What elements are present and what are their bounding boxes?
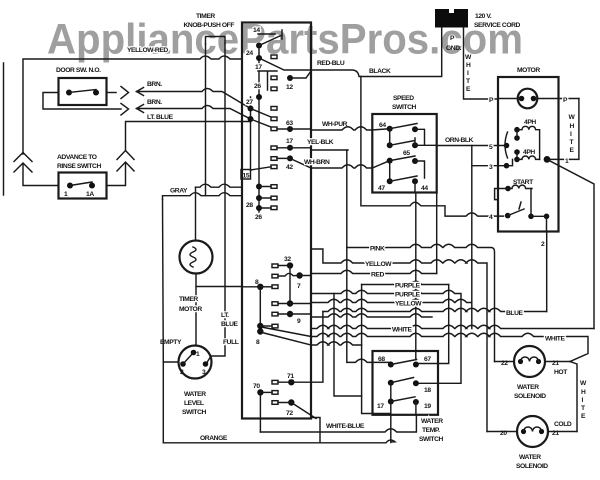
svg-text:12: 12 [286,84,293,91]
cold solenoid circle [517,416,548,447]
wire rinse switch right lead [107,163,126,186]
svg-text:YELLOW: YELLOW [395,301,422,308]
svg-text:GRAY: GRAY [170,188,188,195]
wire 19 riser stub [415,402,417,415]
wire YELLOW [311,249,487,432]
svg-text:WATER: WATER [184,391,206,398]
svg-text:120 V.: 120 V. [475,13,492,20]
svg-text:H: H [581,389,586,396]
wire WH-PUR [311,127,390,130]
timer box [242,23,311,419]
svg-text:27: 27 [246,99,253,106]
svg-text:71: 71 [287,373,294,380]
wire WHITE-BLUE [260,415,416,432]
wire WHITE solenoid feed [311,333,588,361]
svg-text:PINK: PINK [370,246,385,253]
timer motor stem top [195,187,197,240]
timer contact 8 lower rect [272,324,278,328]
wire RED-BLU / BLACK to plug [311,28,442,77]
wire white link between solenoids [570,362,577,432]
wire LT. BLUE horizontal [126,122,251,151]
speed switch box [372,114,436,193]
wire purple1 drop right from 67 [416,285,449,365]
service cord plug [435,9,468,28]
wire solenoid 21 cold lead [548,431,577,433]
svg-text:GND.: GND. [446,45,462,52]
riser purple2 hook [334,294,362,397]
svg-text:14: 14 [253,27,260,34]
timer motor stem bottom [195,274,197,346]
wire door switch loop [43,93,121,110]
svg-text:44: 44 [421,185,428,192]
svg-text:24: 24 [246,50,253,57]
svg-text:LT. BLUE: LT. BLUE [147,114,174,121]
motor box [498,77,559,232]
wire knob drop right to water level FULL [206,44,225,364]
motor start switch [505,213,511,219]
wire motor 1 diagonal white down [547,159,594,328]
wire BRN upper to timer contact 27 [137,89,251,109]
svg-text:TIMER: TIMER [179,296,198,303]
svg-text:WH-PUR: WH-PUR [322,121,348,128]
svg-text:28: 28 [246,202,253,209]
svg-text:SOLENOID: SOLENOID [514,393,546,400]
svg-text:MOTOR: MOTOR [517,67,540,74]
svg-text:ORANGE: ORANGE [200,435,228,442]
advance to rinse switch box [59,173,107,199]
wire 17 drop [390,402,392,443]
svg-text:18: 18 [424,387,431,394]
connector chevrons right of rinse switch [117,151,134,160]
svg-text:72: 72 [286,410,293,417]
wire solenoid 20 lead [487,431,517,433]
wire solenoid 22 lead [495,361,515,363]
svg-text:BRN.: BRN. [147,99,162,106]
connector chevron pair upper [121,87,129,99]
svg-text:17: 17 [255,64,262,71]
speed switch blades and links [390,124,425,193]
svg-text:YEL-BLK: YEL-BLK [307,139,334,146]
svg-text:SWITCH: SWITCH [419,436,444,443]
svg-text:YELLOW-RED: YELLOW-RED [127,47,168,54]
timer terminal rect 17 [271,55,277,59]
wire left column to rinse switch [23,164,59,186]
timer bus upper [251,46,260,213]
wire motor 2 drop [546,216,548,311]
svg-text:64: 64 [379,122,386,129]
svg-text:4PH: 4PH [524,119,536,126]
wire plug neutral to motor P [464,28,499,100]
connector chevrons left column [14,153,32,162]
svg-text:67: 67 [424,356,431,363]
wire node8 diagonal upper [260,326,311,337]
svg-text:ADVANCE TO: ADVANCE TO [57,154,97,161]
motor start outer loop [495,189,508,200]
wire knob drop left [205,44,207,196]
svg-text:PURPLE: PURPLE [395,283,421,290]
wire PURPLE 1 [362,281,449,284]
motor centrifugal switch [504,143,510,149]
svg-text:42: 42 [286,164,293,171]
timer knob bar [206,37,226,45]
door switch DS box [59,78,107,105]
svg-text:63: 63 [286,120,293,127]
wire red drop from speed switch corner [436,193,438,274]
svg-text:HOT: HOT [554,369,568,376]
wire purple1 riser down [362,285,391,414]
wire black drop vertical right [471,146,473,329]
water temp switch box [373,351,439,415]
wire PURPLE 2 [311,290,461,383]
wire BRN lower to timer [137,106,251,120]
svg-text:WHITE: WHITE [392,327,412,334]
svg-text:4PH: 4PH [523,149,535,156]
svg-text:TIMER: TIMER [196,13,215,20]
wire orange riser left [162,199,165,442]
wire BLUE [323,308,547,311]
timer contact mid rect [272,285,278,289]
row X wire [311,314,432,317]
wire ORN-BLK motor 5 [425,144,507,146]
timer bus dots [256,43,262,49]
wire solenoid 21 lead [545,361,570,363]
svg-text:DOOR SW. N.O.: DOOR SW. N.O. [56,67,101,74]
wire RED [311,270,437,273]
water temp blades [391,351,417,402]
wire water level 2 to orange riser [163,361,178,363]
timer contact 15 boxed [241,170,251,180]
svg-text:H: H [466,62,471,69]
svg-text:BRN.: BRN. [147,81,162,88]
svg-text:PURPLE: PURPLE [395,292,421,299]
svg-text:WATER: WATER [519,454,541,461]
timer contact 32 lower [272,302,278,306]
wire protector leads [498,98,579,100]
rinse switch blade [70,182,92,186]
svg-text:15: 15 [243,173,250,180]
timer contact 72 [272,401,278,405]
svg-text:RED: RED [371,272,384,279]
wire 71 riser [311,312,323,383]
svg-text:17: 17 [377,403,384,410]
wire motor 3 lead [472,165,507,167]
wire yel-blk drop to pink [347,150,391,365]
svg-text:ORN-BLK: ORN-BLK [445,137,474,144]
svg-text:COLD: COLD [554,421,572,428]
timer contact 17b [271,146,277,150]
svg-text:TEMP.: TEMP. [422,427,440,434]
svg-text:LT.: LT. [221,312,229,319]
svg-text:SWITCH: SWITCH [392,104,417,111]
svg-text:17: 17 [286,138,293,145]
wire white short third [311,342,362,345]
timer contact 7 [272,274,278,278]
wire black drop to speed switch feed [361,77,504,217]
svg-text:32: 32 [284,256,291,263]
svg-text:LEVEL: LEVEL [184,400,204,407]
wire PINK [347,244,495,361]
svg-text:H: H [570,123,575,130]
svg-text:WHITE-BLUE: WHITE-BLUE [326,423,365,430]
timer motor coil squiggle [190,247,196,267]
svg-text:SOLENOID: SOLENOID [516,463,548,470]
wire WHITE main [311,325,594,328]
wire speed switch 44 drop junction [415,193,417,352]
wire GRAY lower [163,193,243,200]
svg-text:WH-BRN: WH-BRN [304,159,330,166]
svg-text:WATER: WATER [517,384,539,391]
svg-text:BLUE: BLUE [506,310,524,317]
door switch blade [69,90,96,93]
timer contact 42 [271,157,277,161]
hot solenoid circle [514,346,545,377]
motor protector circle [518,89,538,109]
water level contact dots 1 2 3 [191,350,197,356]
wire GRAY upper [196,184,243,187]
svg-text:WHITE: WHITE [545,336,565,343]
timer T-link symbol [258,71,277,90]
svg-text:70: 70 [253,383,260,390]
svg-text:26: 26 [255,214,262,221]
svg-text:BLUE: BLUE [221,321,239,328]
svg-text:SWITCH: SWITCH [182,409,207,416]
svg-text:SERVICE CORD: SERVICE CORD [474,22,521,29]
svg-text:KNOB-PUSH OFF: KNOB-PUSH OFF [184,22,235,29]
speed switch contacts [387,126,393,132]
svg-text:RED-BLU: RED-BLU [317,60,345,67]
svg-text:WATER: WATER [421,418,443,425]
timer contact 63 [271,127,277,131]
page edge artifact [3,63,5,195]
svg-text:YELLOW: YELLOW [365,261,392,268]
door switch contact dots [66,90,72,96]
wire node 8 feed to timer [196,286,242,288]
svg-text:MOTOR: MOTOR [179,306,202,313]
svg-text:68: 68 [378,356,385,363]
svg-text:47: 47 [378,185,385,192]
svg-text:65: 65 [403,150,410,157]
water level switch WLS circle [179,346,212,379]
svg-text:BLACK: BLACK [369,68,391,75]
wire door switch output [107,92,117,94]
svg-text:RINSE SWITCH: RINSE SWITCH [57,163,101,170]
timer contact 9 [272,312,278,316]
wire YELLOW-RED top left [23,56,242,154]
connector chevron pair lower [121,104,129,116]
svg-text:19: 19 [424,403,431,410]
wire 70 drop [259,392,261,432]
wire YEL-BLK [311,149,348,151]
water temp contacts [388,362,394,368]
timer contact 32 [272,264,278,268]
wire motor 3 internal [504,163,510,169]
svg-text:FULL: FULL [223,339,239,346]
timer contact 71 [272,380,278,384]
wire node8 diagonal lower [260,332,311,346]
wire white right bracket P to 1 [548,99,579,160]
wire YELLOW 2 [311,299,472,302]
svg-text:26: 26 [254,83,261,90]
wire orange riser to timer bottom [311,418,320,443]
timer contact 12 [271,76,277,80]
wire WH-BRN [311,161,390,168]
wire ORANGE bottom [163,440,395,443]
svg-text:1A: 1A [86,191,94,198]
water level blade 2-1 [183,353,194,365]
rinse switch contact dots [67,183,73,189]
svg-text:SPEED: SPEED [393,95,414,102]
timer motor TM circle [180,241,213,274]
